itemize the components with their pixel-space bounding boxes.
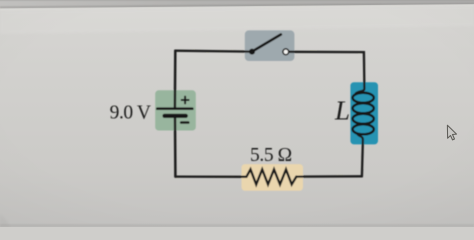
switch body box xyxy=(245,30,295,61)
wire top-right segment xyxy=(287,52,364,94)
wire top-left segment xyxy=(175,50,251,53)
battery body box xyxy=(155,90,196,130)
wire left upper segment xyxy=(174,51,177,108)
resistor body box xyxy=(242,164,304,191)
battery B1 xyxy=(157,109,192,116)
battery plus terminal xyxy=(182,97,189,104)
wire right lower segment xyxy=(357,134,363,177)
switch S1 xyxy=(249,35,289,55)
svg-text:L: L xyxy=(334,96,350,126)
wire left lower segment xyxy=(174,118,177,177)
battery minus terminal xyxy=(181,121,188,124)
wire bottom-left segment xyxy=(175,175,246,177)
wire bottom-right segment xyxy=(296,175,362,178)
inductor L coil xyxy=(353,93,374,135)
mouse cursor xyxy=(447,125,456,140)
svg-text:5.5 Ω: 5.5 Ω xyxy=(250,145,292,166)
svg-text:9.0 V: 9.0 V xyxy=(110,103,151,124)
inductor body box xyxy=(350,82,378,144)
resistor R zigzag xyxy=(246,169,296,184)
